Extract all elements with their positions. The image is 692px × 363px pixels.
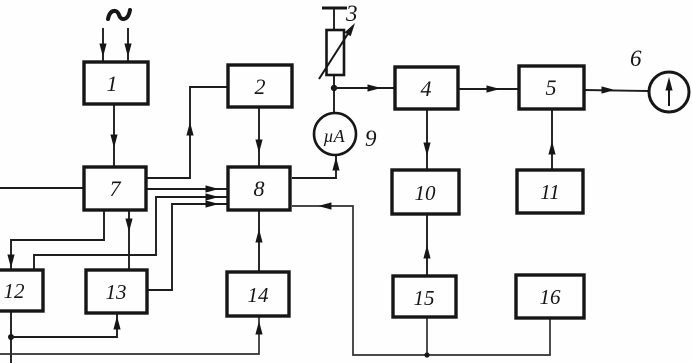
wire input left into block 1 — [102, 28, 104, 62]
wire block 4 to block 5 — [458, 88, 519, 90]
svg-text:14: 14 — [248, 283, 270, 307]
svg-text:6: 6 — [630, 46, 642, 71]
wire block 15 to block 10 — [426, 214, 428, 276]
rheostat 3 body — [327, 30, 345, 75]
block 4 — [395, 67, 458, 109]
wire block 1 to block 7 — [113, 104, 115, 167]
junction dot below block 12 — [8, 334, 14, 340]
svg-text:1: 1 — [107, 71, 118, 96]
wire rheostat 3 through node A to meter 9 — [333, 75, 335, 113]
block 12 — [0, 270, 43, 311]
svg-text:10: 10 — [415, 181, 437, 205]
wire node A to block 4 — [334, 87, 395, 89]
wire block 7 to block 8 — [146, 188, 228, 190]
wire block 14 to block 8 — [258, 210, 260, 272]
wire block 5 to meter 6 — [584, 90, 649, 91]
block 8 — [228, 167, 290, 210]
wire junction to block 13 bottom — [11, 313, 117, 337]
AC source symbol ~ — [108, 10, 130, 19]
block 15 — [393, 276, 456, 317]
wire block 7 to block 2 — [146, 87, 228, 178]
block 2 — [228, 65, 292, 107]
svg-text:9: 9 — [365, 126, 377, 151]
node A junction dot — [331, 85, 337, 91]
block 16 — [516, 275, 584, 318]
wire input right into block 1 — [127, 28, 129, 62]
junction dot at block 15 net — [424, 352, 429, 357]
wire block 15 bottom to net — [426, 317, 428, 356]
svg-text:7: 7 — [110, 176, 122, 201]
meter 6 — [649, 72, 689, 112]
wire left input into block 7 — [0, 187, 84, 189]
wire block 7 to block 13 — [128, 210, 130, 270]
wire block 8 to meter 9 — [292, 156, 336, 178]
terminal bar above rheostat 3 — [322, 7, 347, 10]
svg-text:16: 16 — [540, 285, 562, 309]
block 1 — [84, 62, 148, 104]
svg-text:4: 4 — [421, 76, 432, 101]
svg-text:3: 3 — [345, 1, 358, 26]
svg-text:5: 5 — [546, 75, 557, 100]
block 14 — [227, 272, 289, 316]
wire block 4 to block 10 — [426, 109, 428, 170]
svg-text:15: 15 — [414, 286, 435, 310]
block 5 — [519, 66, 584, 109]
svg-text:13: 13 — [106, 280, 127, 304]
block 13 — [86, 270, 147, 313]
block 10 — [392, 170, 459, 214]
meter 6 needle — [668, 84, 670, 106]
wire block 13 to block 8 — [147, 204, 228, 290]
wire bottom feed to block 12 — [10, 311, 12, 363]
svg-text:11: 11 — [540, 180, 559, 204]
block 7 — [84, 167, 146, 210]
wire block 7 to block 12 — [11, 210, 104, 270]
svg-text:2: 2 — [255, 74, 266, 99]
wire block 11 to block 5 — [551, 109, 553, 170]
wire terminal to rheostat 3 — [333, 8, 335, 30]
rheostat 3 wiper arrow — [319, 29, 351, 79]
block 11 — [517, 170, 583, 213]
svg-text:12: 12 — [4, 279, 26, 303]
wire left edge to block 14 bottom — [0, 316, 259, 354]
wire block 12 to block 8 — [34, 197, 228, 270]
meter 9 microammeter — [314, 113, 356, 155]
wire block 16 / block 15 to block 8 right side — [292, 206, 550, 355]
svg-text:µA: µA — [323, 126, 345, 146]
svg-text:8: 8 — [254, 176, 265, 201]
wire block 2 to block 8 — [258, 107, 260, 167]
